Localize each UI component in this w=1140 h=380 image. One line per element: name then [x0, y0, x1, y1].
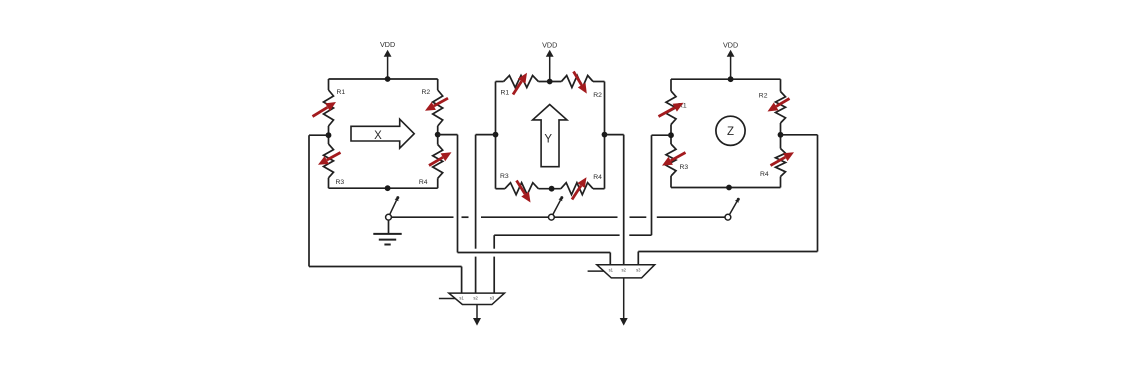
- trim arrow R3 (X bridge): [318, 153, 341, 165]
- svg-text:R3: R3: [336, 179, 345, 186]
- label R1 (X bridge): [337, 89, 346, 96]
- wire X-right output run to MUX2: [458, 252, 611, 254]
- wire Z-bridge left lead-in: [670, 79, 672, 91]
- node X-bridge VDD junction: [385, 76, 391, 82]
- trim arrow R3 (Z bridge): [662, 153, 686, 166]
- wire Z-left run segment (left): [494, 234, 619, 236]
- switch SW-Z: [725, 198, 740, 220]
- node Y-bridge bottom junction: [549, 186, 555, 192]
- power VDD (X bridge): [380, 40, 395, 79]
- wire SW-X to ground: [388, 220, 390, 234]
- wire X-bridge top rail: [329, 78, 438, 80]
- trim arrow R4 (Z bridge): [771, 152, 795, 165]
- wire MUX2 select stub: [588, 270, 604, 272]
- resistor R2 (Z bridge): [776, 92, 786, 124]
- wire Y-bridge left side: [495, 82, 497, 189]
- wire Z-right output stub: [781, 134, 818, 136]
- svg-text:R4: R4: [419, 179, 428, 186]
- resistor R4 (X bridge): [433, 145, 443, 179]
- svg-text:VDD: VDD: [380, 40, 395, 49]
- wire switch common rail seg1: [391, 216, 453, 218]
- trim arrow R4 (Y bridge): [572, 177, 587, 199]
- node Y-bridge VDD junction: [547, 79, 553, 85]
- ground: [373, 234, 401, 245]
- svg-text:VDD: VDD: [542, 41, 557, 50]
- resistor R1 (Y bridge): [504, 76, 539, 88]
- svg-text:R3: R3: [680, 164, 689, 171]
- label R2 (X bridge): [422, 89, 431, 96]
- svg-text:VDD: VDD: [723, 41, 738, 50]
- wire X-left output run to MUX1: [309, 266, 462, 268]
- label R4 (Z bridge): [760, 171, 769, 178]
- svg-text:Z: Z: [727, 126, 734, 138]
- wire Z-left run segment (right): [629, 234, 651, 236]
- label R2 (Y bridge): [593, 92, 602, 99]
- label R1 (Z bridge): [678, 103, 687, 110]
- wire Y-bridge top-left lead: [496, 81, 504, 83]
- wire Y-bridge bottom-center: [538, 188, 560, 190]
- wire MUX1 output: [473, 305, 481, 326]
- wire Z-left output stub: [652, 134, 672, 136]
- wire switch common rail seg2: [462, 216, 469, 218]
- label R3 (Z bridge): [680, 164, 689, 171]
- wire X-left output stub: [309, 134, 329, 136]
- wire X-bridge left mid: [328, 126, 330, 144]
- wire Z-bridge left lead-out: [670, 176, 672, 188]
- wire MUX1 select stub: [439, 298, 456, 300]
- node Z-bridge bottom junction: [726, 185, 732, 191]
- power VDD (Z bridge): [723, 41, 738, 80]
- trim arrow R2 (X bridge): [425, 98, 448, 111]
- trim arrow R3 (Y bridge): [517, 181, 531, 203]
- wire Z-bridge right mid: [780, 123, 782, 149]
- wire Z-bridge top rail: [671, 78, 781, 80]
- wire switch common rail seg4: [554, 216, 617, 218]
- wire Y-left output stub: [476, 134, 496, 136]
- label R3 (Y bridge): [500, 173, 509, 180]
- mux MUX1 body: [449, 293, 505, 304]
- wire Y-right output drop: [623, 135, 625, 265]
- resistor R3 (X bridge): [324, 144, 334, 178]
- resistor R2 (X bridge): [433, 90, 443, 126]
- trim arrow R1 (X bridge): [313, 102, 337, 117]
- node Y-bridge left output: [493, 132, 499, 138]
- node Z-bridge left output: [668, 132, 674, 138]
- node Z-bridge VDD junction: [728, 76, 734, 82]
- mux MUX2 pin labels: [609, 268, 642, 273]
- svg-text:R2: R2: [593, 92, 602, 99]
- switch SW-X: [386, 196, 400, 220]
- wire MUX2 input-a drop: [609, 253, 611, 265]
- resistor R2 (Y bridge): [561, 76, 593, 88]
- node X-bridge right output: [435, 132, 441, 138]
- resistor R1 (Z bridge): [666, 91, 676, 125]
- trim arrow R2 (Z bridge): [768, 99, 790, 112]
- svg-text:s3: s3: [636, 268, 641, 273]
- wire MUX1 input-a drop: [461, 267, 463, 294]
- wire Z-left output drop: [651, 135, 653, 235]
- trim arrow R1 (Z bridge): [659, 103, 684, 117]
- wire switch common rail seg3: [481, 216, 549, 218]
- wire Y-bridge bottom-right lead: [593, 188, 605, 190]
- trim arrow R4 (X bridge): [429, 152, 452, 165]
- wire switch common rail seg5: [630, 216, 647, 218]
- svg-text:R2: R2: [422, 89, 431, 96]
- node Y-bridge right output: [602, 132, 608, 138]
- svg-text:R2: R2: [759, 93, 768, 100]
- wire MUX1 input-c drop (upper): [493, 235, 495, 249]
- label R4 (X bridge): [419, 179, 428, 186]
- wire X-bridge left lead-out: [328, 178, 330, 188]
- svg-text:X: X: [374, 130, 382, 142]
- wire Y-bridge top-center: [538, 81, 561, 83]
- node X-bridge bottom junction: [385, 185, 391, 191]
- svg-text:s1: s1: [609, 268, 614, 273]
- wire MUX2 output: [620, 278, 628, 326]
- svg-text:s2: s2: [473, 295, 478, 300]
- wire Z-right run to MUX2: [638, 251, 817, 253]
- svg-text:s1: s1: [459, 295, 464, 300]
- node X-bridge left output: [326, 132, 332, 138]
- trim arrow R1 (Y bridge): [513, 73, 527, 95]
- wire Z-right output drop: [817, 135, 819, 252]
- wire Z-bridge right lead-in: [780, 79, 782, 91]
- wire switch common rail seg6: [657, 216, 725, 218]
- resistor R4 (Y bridge): [561, 183, 593, 195]
- wire X-bridge right lead-out: [437, 178, 439, 188]
- wire Z-bridge bottom rail: [671, 187, 781, 189]
- mux MUX1 pin labels: [459, 295, 494, 300]
- wire Y-left output drop (upper): [475, 135, 477, 249]
- resistor R4 (Z bridge): [776, 149, 786, 177]
- block arrow X axis: [351, 119, 414, 148]
- wire Z-bridge right lead-out: [780, 177, 782, 188]
- wire X-bridge right lead-in: [437, 79, 439, 90]
- wire X-right output stub: [438, 134, 458, 136]
- resistor R3 (Z bridge): [666, 144, 676, 176]
- wire X-bridge left lead-in: [328, 79, 330, 90]
- resistor R3 (Y bridge): [505, 183, 539, 195]
- trim arrow R2 (Y bridge): [574, 72, 587, 94]
- mux MUX2 body: [597, 265, 655, 278]
- svg-text:Y: Y: [544, 134, 552, 146]
- switch SW-Y: [549, 196, 564, 220]
- wire Y-bridge bottom-left lead: [496, 188, 505, 190]
- wire X-bridge bottom rail: [329, 187, 438, 189]
- svg-text:R3: R3: [500, 173, 509, 180]
- wire MUX1 input-c drop (lower): [493, 257, 495, 294]
- label R3 (X bridge): [336, 179, 345, 186]
- label R1 (Y bridge): [501, 89, 510, 96]
- symbol Z axis (out of plane): [716, 116, 745, 145]
- wire Z-bridge left mid: [670, 125, 672, 145]
- svg-text:s3: s3: [490, 295, 495, 300]
- svg-text:R4: R4: [593, 174, 602, 181]
- wire X-bridge right mid: [437, 126, 439, 145]
- node Z-bridge right output: [778, 132, 784, 138]
- label R4 (Y bridge): [593, 174, 602, 181]
- block arrow Y axis: [533, 105, 567, 167]
- svg-text:R4: R4: [760, 171, 769, 178]
- wire Y-bridge top-right lead: [593, 81, 605, 83]
- svg-text:s2: s2: [621, 268, 626, 273]
- wire X-left output drop: [308, 135, 310, 266]
- svg-text:R1: R1: [337, 89, 346, 96]
- wire MUX2 input-c drop: [637, 252, 639, 265]
- wire Y-left output drop (lower): [475, 257, 477, 294]
- wire X-right output drop: [457, 135, 459, 253]
- wire Y-right output stub: [605, 134, 624, 136]
- label R2 (Z bridge): [759, 93, 768, 100]
- power VDD (Y bridge): [542, 41, 557, 82]
- svg-text:R1: R1: [501, 89, 510, 96]
- resistor R1 (X bridge): [324, 90, 334, 126]
- wire Y-bridge right side: [604, 82, 606, 189]
